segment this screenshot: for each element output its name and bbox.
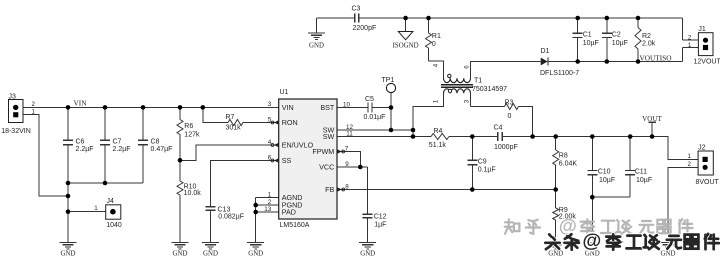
svg-text:1000pF: 1000pF	[494, 144, 518, 151]
svg-text:2.2µF: 2.2µF	[113, 146, 131, 153]
ground (C13)	[202, 243, 219, 258]
ground (input caps)	[60, 243, 77, 258]
svg-text:2: 2	[688, 34, 692, 41]
diode D1 DFLS1100-7	[540, 48, 579, 77]
wire TP1 stub	[390, 93, 392, 108]
svg-text:U1: U1	[280, 89, 289, 96]
svg-text:VIN: VIN	[74, 99, 88, 108]
resistor R8	[553, 150, 578, 167]
capacitor C2	[602, 32, 628, 47]
wire J4 pin1	[68, 211, 106, 213]
resistor R2	[635, 28, 656, 50]
ground (C12)	[359, 243, 376, 258]
svg-text:R2: R2	[642, 33, 651, 40]
wire EN/UVLO	[180, 145, 279, 160]
node VOUT label	[642, 115, 662, 123]
svg-text:1040: 1040	[106, 222, 122, 229]
svg-text:J4: J4	[107, 198, 115, 205]
svg-text:6.04K: 6.04K	[559, 160, 578, 167]
connector J2	[688, 145, 720, 186]
svg-text:T1: T1	[474, 78, 482, 85]
svg-text:13: 13	[264, 206, 272, 213]
svg-text:0.01µF: 0.01µF	[364, 114, 386, 121]
resistor R1	[426, 33, 441, 48]
resistor R9	[553, 207, 577, 221]
svg-text:R6: R6	[184, 123, 193, 130]
capacitor C10	[587, 169, 615, 184]
svg-text:R3: R3	[505, 99, 514, 106]
svg-text:SS: SS	[282, 156, 292, 165]
svg-text:301k: 301k	[226, 125, 242, 132]
svg-text:0.082µF: 0.082µF	[218, 213, 244, 220]
wire VOUT stub	[648, 122, 655, 136]
svg-text:2: 2	[31, 101, 35, 108]
connector J4	[94, 198, 122, 229]
svg-text:10.0k: 10.0k	[184, 190, 202, 197]
svg-text:GND: GND	[360, 251, 375, 258]
wire primary top rail	[317, 18, 699, 40]
wire SW pin12	[337, 129, 413, 131]
wire C8 column	[142, 107, 144, 183]
wire R7 branch	[203, 107, 279, 122]
junction dot EN/R6	[178, 158, 183, 163]
svg-text:1: 1	[268, 191, 272, 198]
resistor R6	[177, 120, 200, 139]
wire C11 column	[629, 137, 631, 198]
svg-text:127k: 127k	[184, 132, 200, 139]
svg-text:GND: GND	[203, 251, 218, 258]
svg-text:GND: GND	[248, 251, 263, 258]
wire C2 column	[606, 18, 608, 62]
wire SW to transformer pin1	[413, 93, 444, 136]
capacitor C13	[206, 207, 245, 221]
op-amp U1 LM5160A regulator IC	[264, 89, 353, 229]
svg-text:EN/UVLO: EN/UVLO	[282, 141, 314, 150]
ground GND (C3 left)	[308, 33, 325, 50]
node VOUTISO label	[640, 53, 672, 62]
svg-text:C6: C6	[76, 138, 85, 145]
svg-text:0.47µF: 0.47µF	[151, 146, 173, 153]
ground (AGND/PGND/PAD)	[247, 243, 264, 258]
svg-text:FPWM: FPWM	[312, 147, 334, 156]
svg-text:GND: GND	[661, 251, 676, 258]
capacitor C4	[494, 125, 518, 151]
junction dot FPWM/VCC	[358, 165, 363, 170]
svg-text:10: 10	[343, 101, 351, 108]
svg-text:@: @	[582, 230, 601, 252]
wire SW pin11 / R4 line	[337, 136, 652, 138]
wire R3 to output line	[519, 107, 533, 137]
wire SW node drop	[390, 108, 392, 131]
svg-text:1: 1	[688, 153, 692, 160]
wire C7 column	[104, 107, 106, 183]
ground (R9)	[547, 243, 564, 258]
wire SS to C13	[211, 161, 279, 243]
svg-text:R4: R4	[434, 128, 443, 135]
junction dots top rail	[403, 16, 640, 21]
svg-text:10µF: 10µF	[636, 177, 652, 184]
svg-text:C3: C3	[352, 6, 361, 13]
svg-text:C7: C7	[113, 138, 122, 145]
junction dots VOUTISO rail	[575, 59, 640, 64]
svg-text:3: 3	[463, 99, 470, 103]
svg-text:2.2µF: 2.2µF	[76, 146, 94, 153]
svg-text:RON: RON	[282, 118, 298, 127]
resistor R10	[177, 181, 201, 197]
svg-text:3: 3	[268, 101, 272, 108]
svg-text:0: 0	[508, 113, 512, 120]
wire ISOGND stub	[405, 18, 407, 32]
wire input cap bottom rail	[68, 182, 143, 184]
svg-text:1µF: 1µF	[374, 221, 386, 228]
svg-text:C10: C10	[598, 169, 611, 176]
capacitor C11	[625, 169, 652, 184]
svg-text:2: 2	[688, 161, 692, 168]
capacitor C1	[573, 32, 599, 47]
ground ISOGND	[393, 32, 419, 50]
svg-text:J3: J3	[9, 94, 17, 101]
wire C5 to SW node	[372, 107, 391, 109]
svg-text:750314597: 750314597	[472, 86, 507, 93]
svg-text:10µF: 10µF	[599, 177, 615, 184]
svg-text:4: 4	[432, 63, 439, 67]
svg-text:VIN: VIN	[282, 103, 294, 112]
wire J3 pin1 to input cap bottom net	[23, 115, 68, 196]
capacitor C7	[100, 138, 131, 153]
svg-text:D1: D1	[541, 48, 550, 55]
svg-text:J2: J2	[698, 145, 706, 152]
wire C6 column	[67, 107, 69, 242]
svg-text:1: 1	[688, 42, 692, 49]
svg-text:ISOGND: ISOGND	[393, 42, 419, 49]
svg-text:SW: SW	[323, 132, 335, 141]
svg-text:C9: C9	[478, 159, 487, 166]
svg-text:VOUT: VOUT	[642, 115, 662, 123]
wire R1 branch	[429, 18, 444, 78]
junction dots PGND/PAD	[253, 203, 258, 215]
wire R2 column	[637, 18, 639, 62]
svg-text:12VOUT: 12VOUT	[694, 59, 720, 66]
svg-text:11: 11	[346, 131, 353, 138]
capacitor C9	[467, 159, 495, 174]
capacitor C12	[363, 213, 387, 228]
svg-text:1: 1	[31, 108, 35, 115]
svg-text:9: 9	[345, 161, 349, 168]
node VIN label	[74, 99, 88, 108]
svg-text:0: 0	[432, 41, 436, 48]
svg-text:PAD: PAD	[282, 208, 296, 217]
svg-text:8: 8	[345, 183, 349, 190]
wire C9 branch	[471, 137, 473, 190]
svg-text:C11: C11	[635, 169, 647, 176]
svg-text:2.0k: 2.0k	[642, 40, 656, 47]
junction dots FB line	[470, 187, 558, 192]
svg-text:R1: R1	[432, 33, 441, 40]
capacitor C3	[352, 6, 377, 33]
resistor R4	[429, 128, 449, 149]
svg-text:C5: C5	[365, 96, 374, 103]
transformer T1 750314597	[432, 63, 507, 103]
svg-text:2200pF: 2200pF	[353, 25, 377, 32]
wire C10/C11 ground rail	[592, 196, 630, 198]
wire R8/R9 column	[555, 137, 557, 243]
resistor R7	[226, 114, 244, 132]
wire FPWM	[337, 152, 360, 168]
wire VOUTISO rail	[548, 48, 698, 62]
svg-text:TP1: TP1	[382, 77, 395, 84]
wire C1 column	[577, 18, 579, 62]
wire transformer pin6 to D1	[471, 62, 541, 79]
ground (C10/C11)	[584, 243, 601, 258]
wire VOUT to J2 pin1	[652, 137, 698, 160]
svg-text:7: 7	[345, 145, 349, 152]
svg-text:C8: C8	[151, 138, 160, 145]
svg-text:C1: C1	[583, 32, 592, 39]
svg-text:R8: R8	[559, 152, 568, 159]
svg-text:VOUTISO: VOUTISO	[640, 53, 672, 62]
svg-text:51.1k: 51.1k	[429, 142, 447, 149]
svg-text:18-32VIN: 18-32VIN	[1, 128, 31, 135]
wire FB line	[337, 189, 556, 191]
svg-text:1: 1	[432, 99, 439, 103]
ground (R10)	[172, 243, 189, 258]
svg-text:R7: R7	[226, 114, 235, 121]
svg-text:0.1µF: 0.1µF	[478, 167, 496, 174]
wire VIN net (J3 pin2 to U1 VIN pin3)	[23, 106, 279, 108]
junction dots output line	[470, 134, 654, 139]
capacitor C5	[364, 96, 386, 121]
watermark row2 toutiao	[545, 230, 719, 252]
svg-text:C4: C4	[494, 125, 503, 132]
svg-text:C12: C12	[374, 213, 387, 220]
svg-text:C2: C2	[612, 32, 621, 39]
capacitor C6	[63, 138, 94, 153]
capacitor C8	[138, 138, 172, 153]
svg-text:BST: BST	[320, 103, 335, 112]
wire AGND/PGND/PAD to GND	[256, 198, 279, 243]
svg-text:GND: GND	[548, 251, 563, 258]
svg-text:VCC: VCC	[319, 163, 334, 172]
svg-text:FB: FB	[325, 185, 334, 194]
junction dots SW node	[389, 105, 416, 139]
connector J1	[688, 26, 720, 65]
wire J2 pin2 to GND	[668, 167, 698, 242]
ground (J2 pin2)	[660, 243, 677, 258]
connector J3	[1, 94, 35, 136]
svg-text:10µF: 10µF	[612, 40, 628, 47]
svg-text:10µF: 10µF	[583, 40, 599, 47]
svg-text:GND: GND	[61, 251, 76, 258]
svg-text:GND: GND	[309, 43, 324, 50]
resistor R3	[505, 99, 519, 119]
wire BST to C5	[337, 107, 368, 109]
svg-text:8VOUT: 8VOUT	[696, 179, 720, 186]
svg-text:GND: GND	[173, 251, 188, 258]
junction dots input bottom	[66, 181, 108, 214]
svg-text:LM5160A: LM5160A	[280, 222, 310, 229]
junction dots VIN line	[66, 105, 205, 110]
test point TP1	[382, 77, 396, 92]
watermark row1 zhihu	[505, 215, 693, 236]
wire R6/R10 column	[179, 107, 181, 242]
svg-text:6: 6	[463, 65, 470, 69]
svg-text:DFLS1100-7: DFLS1100-7	[540, 70, 579, 77]
wire transformer pin3 to R3	[471, 93, 505, 106]
junction dot C10 gnd rail	[590, 195, 595, 200]
wire C10 column	[591, 137, 593, 243]
svg-text:1: 1	[94, 205, 98, 212]
svg-text:J1: J1	[698, 26, 706, 33]
wire VCC to C12	[337, 167, 368, 243]
svg-text:@: @	[559, 215, 577, 236]
